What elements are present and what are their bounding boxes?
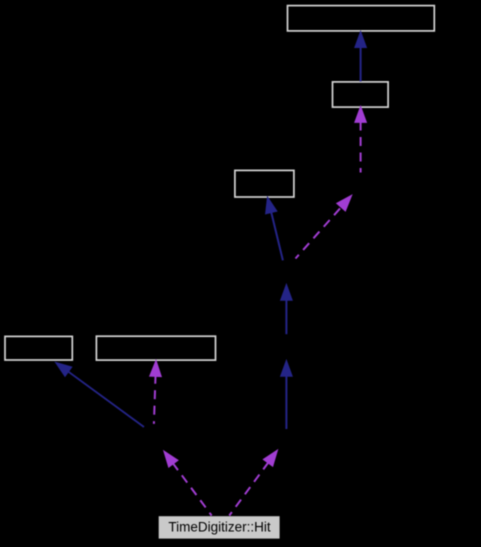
svg-text:TimeDigitizer::Hit: TimeDigitizer::Hit [168,519,271,534]
